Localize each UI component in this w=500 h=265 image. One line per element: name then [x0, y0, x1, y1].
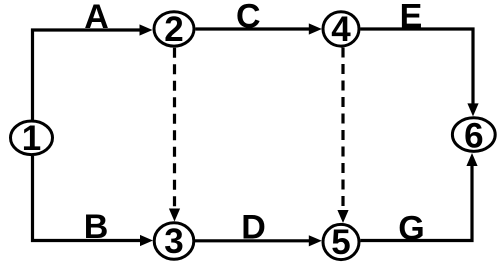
- svg-text:5: 5: [331, 223, 350, 262]
- dashed dummy wire: node 2 to node 3: [169, 48, 180, 222]
- wire C: node 2 to node 4: [196, 23, 322, 34]
- svg-text:1: 1: [22, 119, 41, 158]
- node 2: [154, 10, 194, 49]
- node 6: [452, 116, 495, 155]
- wire E: node 4 right and down to node 6: [360, 29, 478, 116]
- svg-text:4: 4: [331, 10, 351, 49]
- svg-text:G: G: [398, 210, 424, 248]
- dashed dummy wire: node 4 to node 5: [337, 48, 348, 224]
- svg-text:C: C: [236, 0, 261, 36]
- wire G: node 5 right and up to node 6: [360, 153, 477, 241]
- svg-text:A: A: [84, 0, 109, 36]
- svg-text:B: B: [84, 208, 109, 246]
- wire D: node 3 to node 5: [195, 235, 322, 246]
- svg-text:E: E: [400, 0, 423, 36]
- node 1: [11, 119, 53, 158]
- node 5: [323, 223, 359, 262]
- svg-text:6: 6: [464, 116, 483, 155]
- node 4: [323, 10, 359, 49]
- wire A: node 1 up and right to node 2: [33, 24, 153, 120]
- wire B: node 1 down and right to node 3: [33, 156, 154, 246]
- svg-text:3: 3: [164, 222, 183, 261]
- svg-text:2: 2: [164, 10, 183, 49]
- svg-text:D: D: [241, 209, 266, 247]
- node 3: [154, 222, 194, 261]
